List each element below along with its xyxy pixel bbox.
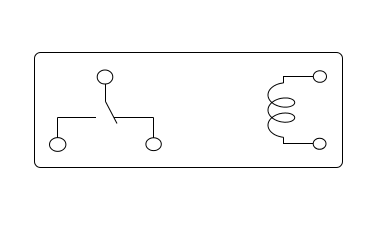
coil terminal bottom (pin 2) [313, 138, 326, 149]
wire right fixed contact [114, 117, 154, 119]
wire from common terminal [105, 84, 107, 102]
wire coil bottom lead [284, 137, 314, 143]
switch common terminal (pin 3) [97, 70, 113, 84]
switch moving arm [106, 102, 118, 124]
relay body outline K1 [35, 53, 343, 168]
switch NO terminal (pin 5) [146, 138, 161, 151]
wire left fixed contact [58, 117, 97, 119]
switch NC terminal (pin 4) [50, 138, 66, 152]
wire coil top lead [284, 77, 314, 84]
coil terminal top (pin 1) [313, 71, 326, 83]
inductor coil L1 [268, 83, 295, 137]
wire left contact drop [57, 118, 59, 138]
wire right contact drop [153, 118, 155, 138]
